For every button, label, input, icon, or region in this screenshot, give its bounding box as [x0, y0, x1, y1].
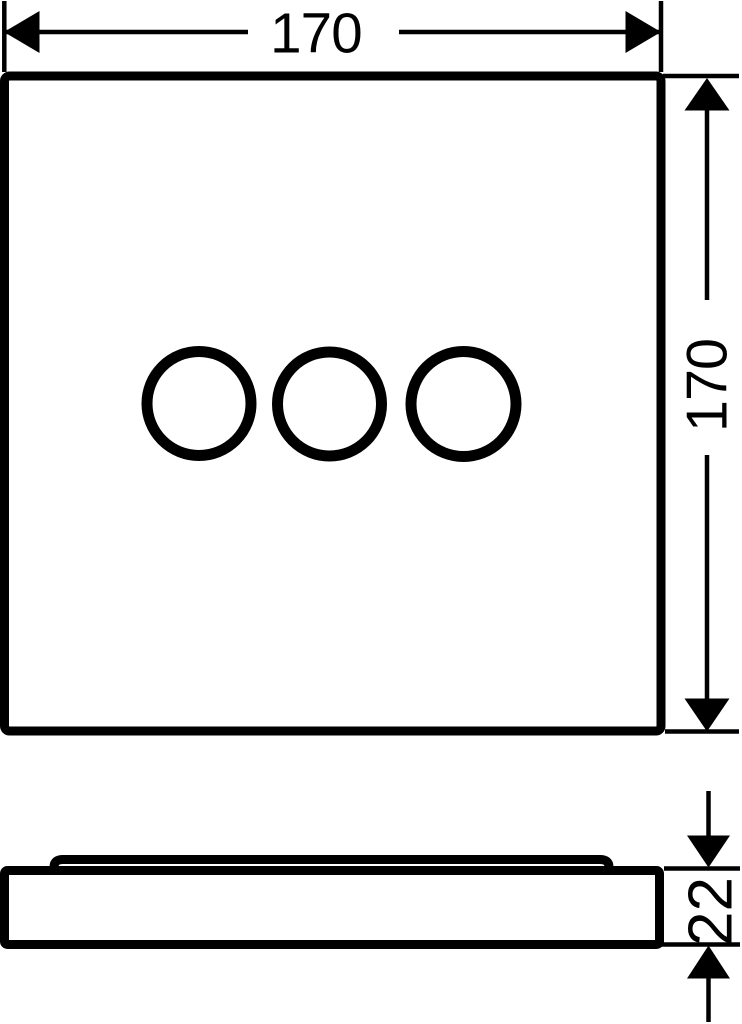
side view: raised face lip	[54, 860, 609, 873]
control circle 2 (middle)	[278, 352, 382, 456]
height dimension arrowhead up	[685, 78, 730, 111]
thickness dimension upper leader line	[706, 791, 711, 836]
extension line left of width dimension	[2, 1, 7, 72]
svg-text:170: 170	[676, 339, 740, 432]
thickness dimension arrowhead up	[687, 946, 730, 979]
svg-text:170: 170	[270, 2, 362, 65]
extension line top of height dimension	[663, 74, 739, 79]
height dimension arrowhead down	[685, 699, 730, 732]
width dimension arrowhead left	[4, 11, 40, 53]
thickness dimension lower leader line	[706, 978, 711, 1022]
height dimension line upper segment	[705, 109, 710, 300]
control circle 1 (left)	[147, 352, 251, 456]
extension line bottom of height dimension	[665, 729, 739, 734]
svg-text:22: 22	[677, 877, 742, 946]
extension line right of width dimension	[659, 1, 664, 72]
extension line top of thickness dimension	[664, 866, 740, 871]
height dimension line lower segment	[705, 455, 710, 699]
extension line bottom of thickness dimension	[659, 942, 740, 947]
width dimension line right segment	[399, 30, 660, 35]
width dimension arrowhead right	[626, 11, 662, 53]
side view: plate body outline	[5, 871, 660, 945]
front view: square plate outline	[5, 76, 662, 731]
width dimension line left segment	[5, 30, 248, 35]
control circle 3 (right)	[411, 352, 516, 457]
thickness dimension arrowhead down	[687, 836, 730, 868]
